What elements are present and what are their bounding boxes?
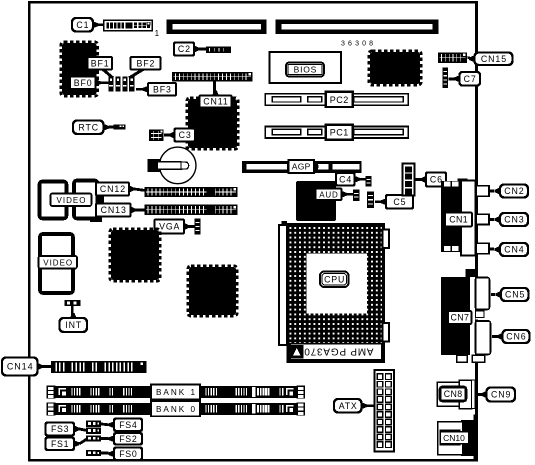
label CN14 bbox=[2, 358, 43, 376]
header CN13 bbox=[145, 205, 238, 215]
jumper block BF bbox=[109, 77, 135, 92]
wire C5 bbox=[375, 200, 381, 203]
CPU socket body bbox=[288, 225, 384, 362]
connector CN1 port bbox=[461, 181, 476, 256]
svg-text:BANK 1: BANK 1 bbox=[156, 388, 197, 397]
svg-text:VIDEO: VIDEO bbox=[57, 196, 87, 205]
label C4 bbox=[336, 173, 360, 186]
label CN13 bbox=[96, 204, 136, 217]
pin 1 text bbox=[155, 29, 160, 38]
svg-text:CN8: CN8 bbox=[444, 389, 463, 399]
label CN5 bbox=[496, 288, 529, 301]
port CN6 bbox=[476, 321, 491, 355]
wire INT bbox=[71, 306, 74, 319]
label BF1 bbox=[88, 57, 113, 70]
header CN12 bbox=[145, 187, 238, 197]
chip U4 audio bbox=[296, 181, 336, 221]
video connector housing A bbox=[40, 182, 67, 219]
svg-text:C2: C2 bbox=[178, 44, 191, 54]
label CN3 bbox=[495, 213, 529, 226]
svg-text:VIDEO: VIDEO bbox=[43, 259, 73, 268]
label C3 bbox=[169, 129, 195, 142]
component RTC bbox=[114, 124, 126, 129]
svg-text:BANK 0: BANK 0 bbox=[156, 405, 197, 414]
CPU socket lever bbox=[279, 221, 287, 345]
label CN11 bbox=[200, 91, 232, 108]
label FS0 bbox=[109, 448, 143, 461]
svg-text:FS4: FS4 bbox=[119, 420, 137, 430]
stub below CN13 bbox=[90, 217, 102, 222]
DIP switch C1 body bbox=[104, 20, 153, 30]
wire BF3 bbox=[136, 88, 143, 91]
wire CN3 bbox=[490, 218, 494, 221]
capacitor C4 bbox=[366, 176, 372, 187]
svg-text:CN13: CN13 bbox=[101, 205, 127, 215]
connector CN1 top tab bbox=[458, 179, 468, 183]
svg-text:RTC: RTC bbox=[78, 122, 99, 132]
label FS3 bbox=[46, 423, 80, 436]
CPU socket cavity bbox=[307, 254, 368, 314]
svg-text:FS3: FS3 bbox=[51, 424, 69, 434]
wire C1 bbox=[98, 23, 105, 26]
wire FS3 bbox=[80, 429, 88, 431]
label BF0 bbox=[70, 77, 101, 90]
label FS2 bbox=[109, 433, 143, 445]
wire CN5 bbox=[491, 293, 495, 296]
svg-text:ATX: ATX bbox=[339, 401, 358, 411]
header CN14 bbox=[51, 361, 147, 373]
label BF3 bbox=[143, 83, 177, 96]
wire CN4 bbox=[490, 248, 494, 251]
battery bbox=[159, 147, 196, 184]
port middle tabs bbox=[476, 311, 485, 320]
capacitor C5 bbox=[367, 192, 374, 209]
label C6 bbox=[421, 173, 447, 187]
wire VGA bbox=[190, 225, 196, 228]
header CN11 bbox=[172, 72, 253, 82]
label CN1 bbox=[445, 213, 472, 227]
label INT bbox=[60, 313, 88, 332]
label CN9 bbox=[481, 388, 515, 402]
connector CN1 body bbox=[441, 181, 466, 252]
DIMM slot BANK 0 bbox=[47, 401, 306, 416]
wire C2 bbox=[199, 48, 207, 51]
video connector housing C bbox=[40, 234, 73, 293]
AGP slot bbox=[242, 161, 362, 173]
text 36308 bbox=[341, 41, 374, 48]
chip U2 bbox=[369, 51, 421, 85]
chip U3 northbridge bbox=[187, 98, 238, 149]
wire CN11 bbox=[213, 82, 216, 97]
svg-text:FS2: FS2 bbox=[119, 434, 137, 444]
label VIDEO bbox=[51, 194, 92, 207]
wire CN15 bbox=[468, 56, 471, 59]
svg-text:BF1: BF1 bbox=[91, 58, 110, 68]
CN10 inner band bbox=[440, 430, 461, 446]
battery arrow bbox=[158, 162, 189, 170]
socket tab right upper bbox=[383, 230, 390, 249]
video connector housing B bbox=[74, 181, 98, 219]
connector CN8 right bbox=[459, 380, 475, 409]
slot connector top-right bbox=[276, 20, 439, 34]
port tab CN3 bbox=[476, 214, 489, 224]
label CN6 bbox=[497, 330, 530, 343]
svg-text:C1: C1 bbox=[76, 20, 89, 30]
svg-text:BIOS: BIOS bbox=[294, 65, 318, 75]
label CN4 bbox=[495, 243, 529, 256]
svg-text:CN11: CN11 bbox=[203, 97, 228, 107]
connector CN7 body bbox=[441, 277, 470, 355]
svg-text:BF0: BF0 bbox=[74, 78, 93, 88]
connector CN7 stub bbox=[466, 269, 476, 277]
battery clip bbox=[148, 159, 162, 172]
svg-text:C7: C7 bbox=[464, 74, 477, 84]
label CN15 bbox=[469, 53, 513, 66]
capacitor C3 bbox=[149, 130, 164, 142]
wire CN9 bbox=[477, 393, 482, 396]
svg-text:CN5: CN5 bbox=[505, 290, 525, 300]
resistor pack C2 bbox=[206, 47, 231, 53]
label VIDEO2 bbox=[39, 256, 78, 269]
connector CN10 front bbox=[438, 422, 463, 455]
wire FS2 bbox=[100, 437, 109, 440]
svg-text:C4: C4 bbox=[339, 174, 352, 184]
PCI slot PC1 bbox=[265, 125, 408, 140]
socket pin1 box bbox=[291, 345, 304, 359]
jumper FSb bbox=[86, 428, 101, 434]
wire CN6 bbox=[492, 335, 497, 338]
wire C6 bbox=[415, 178, 421, 181]
tabs below CN7 bbox=[457, 355, 485, 362]
wire CN12 bbox=[135, 189, 146, 191]
svg-text:BF2: BF2 bbox=[137, 58, 156, 68]
chip U1 bbox=[61, 42, 98, 96]
svg-text:CN10: CN10 bbox=[443, 433, 465, 443]
wire AUD bbox=[347, 193, 355, 196]
chip U5 bbox=[110, 229, 160, 281]
jumper FSa bbox=[86, 421, 101, 427]
label FS4 bbox=[109, 419, 143, 432]
wire BF0 bbox=[100, 81, 109, 84]
connector CN15 bbox=[438, 53, 467, 64]
socket tab right lower bbox=[383, 323, 390, 342]
svg-text:FS1: FS1 bbox=[51, 439, 69, 449]
wire FS1 bbox=[80, 439, 88, 444]
label ATX bbox=[334, 399, 367, 413]
svg-text:CN6: CN6 bbox=[506, 332, 526, 342]
socket defs bbox=[0, 0, 1, 1]
port CN5 bbox=[476, 278, 490, 310]
wire CN14 bbox=[43, 365, 52, 368]
label CN7 bbox=[448, 311, 472, 324]
capacitor bank C6 bbox=[403, 164, 415, 196]
svg-text:C5: C5 bbox=[393, 197, 406, 207]
svg-text:C3: C3 bbox=[179, 130, 192, 140]
BIOS chip label bbox=[286, 63, 324, 77]
BIOS socket bbox=[270, 52, 342, 83]
DIMM slot BANK 1 bbox=[47, 385, 306, 400]
svg-text:CN7: CN7 bbox=[451, 313, 470, 323]
connector CN10 body bbox=[461, 415, 478, 460]
svg-text:CN9: CN9 bbox=[491, 390, 511, 400]
label FS1 bbox=[46, 438, 80, 451]
wire C7 bbox=[449, 78, 455, 81]
port tab CN4 bbox=[476, 243, 489, 253]
svg-text:VGA: VGA bbox=[159, 222, 180, 232]
svg-text:1: 1 bbox=[155, 29, 160, 38]
svg-text:CPU: CPU bbox=[324, 274, 345, 284]
svg-text:PC1: PC1 bbox=[330, 128, 349, 138]
label CN12 bbox=[96, 183, 135, 196]
label AUD bbox=[316, 189, 348, 201]
jumper FSd bbox=[86, 450, 101, 456]
wire CN2 bbox=[490, 190, 494, 193]
ATX power connector bbox=[375, 370, 395, 452]
svg-text:CN4: CN4 bbox=[504, 245, 524, 255]
svg-text:INT: INT bbox=[65, 320, 82, 330]
wire RTC bbox=[109, 126, 115, 129]
svg-text:PC2: PC2 bbox=[330, 95, 349, 105]
junction bar bbox=[99, 196, 104, 205]
wire BF2 bbox=[129, 70, 143, 79]
label C7 bbox=[454, 72, 480, 86]
chip U6 bbox=[188, 266, 237, 316]
svg-text:BF3: BF3 bbox=[153, 84, 172, 94]
wire FS4 bbox=[100, 424, 109, 425]
svg-text:AMP PGA370: AMP PGA370 bbox=[303, 346, 373, 357]
label AGP bbox=[289, 160, 319, 173]
wire CN13 bbox=[136, 209, 146, 212]
capacitor C7 bbox=[443, 68, 449, 89]
svg-text:3 6 3 0 8: 3 6 3 0 8 bbox=[341, 41, 374, 48]
label BF2 bbox=[131, 57, 161, 70]
label CPU bbox=[320, 272, 349, 288]
svg-text:AGP: AGP bbox=[292, 162, 311, 172]
svg-text:CN14: CN14 bbox=[7, 362, 34, 372]
socket text AMP PGA370 bbox=[303, 346, 373, 357]
wire ATX bbox=[367, 404, 376, 407]
svg-text:CN15: CN15 bbox=[481, 54, 507, 64]
label VGA bbox=[155, 220, 190, 234]
wire FS0 bbox=[100, 452, 109, 455]
label C2 bbox=[174, 43, 200, 56]
port tab CN2 bbox=[476, 186, 489, 196]
svg-text:CN3: CN3 bbox=[504, 215, 524, 225]
slot connector top-left bbox=[167, 20, 267, 34]
svg-text:CN12: CN12 bbox=[100, 184, 126, 194]
jumper INT bbox=[65, 300, 81, 306]
svg-text:CN1: CN1 bbox=[449, 215, 468, 225]
capacitor AUD bbox=[353, 190, 360, 202]
jumper FSc bbox=[86, 435, 101, 441]
wire C4 bbox=[359, 178, 366, 181]
label CN2 bbox=[495, 185, 529, 198]
label C5 bbox=[381, 195, 414, 209]
label RTC bbox=[73, 121, 109, 135]
socket bottom bar bbox=[290, 344, 382, 360]
label C1 bbox=[72, 18, 99, 32]
svg-text:AUD: AUD bbox=[319, 190, 338, 199]
svg-text:CN2: CN2 bbox=[504, 186, 524, 196]
connector CN8 outer bbox=[437, 382, 459, 406]
capacitor VGA bbox=[195, 219, 201, 235]
svg-text:FS0: FS0 bbox=[119, 449, 137, 459]
label CN8 bbox=[440, 387, 466, 401]
CN1 pins top bbox=[444, 182, 459, 187]
PCI slot PC2 bbox=[265, 92, 408, 107]
wire C3 bbox=[164, 134, 169, 137]
wire BF1 bbox=[103, 70, 113, 79]
CN1 pins bottom bbox=[444, 246, 459, 251]
label CN10 bbox=[440, 432, 469, 444]
